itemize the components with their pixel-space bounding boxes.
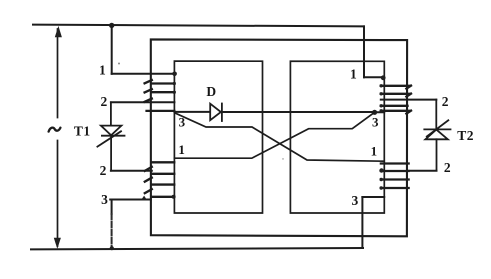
diode D [210,104,222,122]
svg-text:1: 1 [350,66,357,81]
wire tap 3 right [362,196,384,198]
wire tap 1 right [364,76,383,78]
wire from top bus down right [363,26,365,77]
svg-text:3: 3 [352,193,359,208]
core window left [174,61,262,213]
winding W4 right lower turns [381,164,409,189]
node winding L1 top [172,72,177,77]
speckle [118,63,120,65]
AC source dimension line with arrows [57,29,59,246]
svg-text:2: 2 [100,163,107,178]
wire bottom AC bus [31,248,363,249]
wire top AC bus [33,25,364,27]
node junction top [109,23,114,28]
svg-text:1: 1 [99,63,106,78]
svg-text:T2: T2 [457,128,474,143]
winding W1 bottom turn / tap 3 [147,110,175,112]
svg-text:1: 1 [178,142,185,157]
thyristor T2 [424,100,450,171]
wire tap 2 left lower [111,170,152,172]
wire tap 2 left upper [111,101,174,103]
svg-text:D: D [206,84,216,99]
svg-text:2: 2 [442,94,449,109]
winding W2 left lower turns [145,162,174,197]
svg-text:2: 2 [101,94,108,109]
wire T2 bottom to tap 2 right lower [407,170,436,172]
svg-text:T1: T1 [74,123,91,138]
winding W1 left upper turns [145,80,175,102]
wire tap3 right down to bottom bus [361,197,363,248]
~ AC symbol [49,128,61,132]
svg-text:2: 2 [444,160,451,175]
wire crossing A : left 3 to right 1 [175,113,384,161]
svg-text:3: 3 [101,192,108,207]
node right tap3 junction [372,110,377,115]
transformer core outer [151,39,407,236]
svg-text:1: 1 [371,143,378,158]
node winding L2 bottom [172,195,176,199]
wire crossing B : left 1 to right 3 [174,113,374,159]
wire tap 3 left [110,199,151,201]
wire winding L1 tap3 to diode [174,111,210,113]
svg-text:3: 3 [179,115,186,130]
wire tap 2 right upper to T2 [381,99,437,101]
core window right [290,61,384,213]
wire tap3 left down to bottom bus [111,200,113,215]
winding W3 right upper turns [381,86,411,114]
wire from top bus down to tap 1 left [111,25,113,73]
thyristor T1 [97,102,124,170]
junction arrow tap3 left [142,196,147,200]
wire diode cathode to right tap 3 [222,111,384,113]
svg-text:3: 3 [372,115,379,130]
wire tap 1 left [112,73,175,75]
